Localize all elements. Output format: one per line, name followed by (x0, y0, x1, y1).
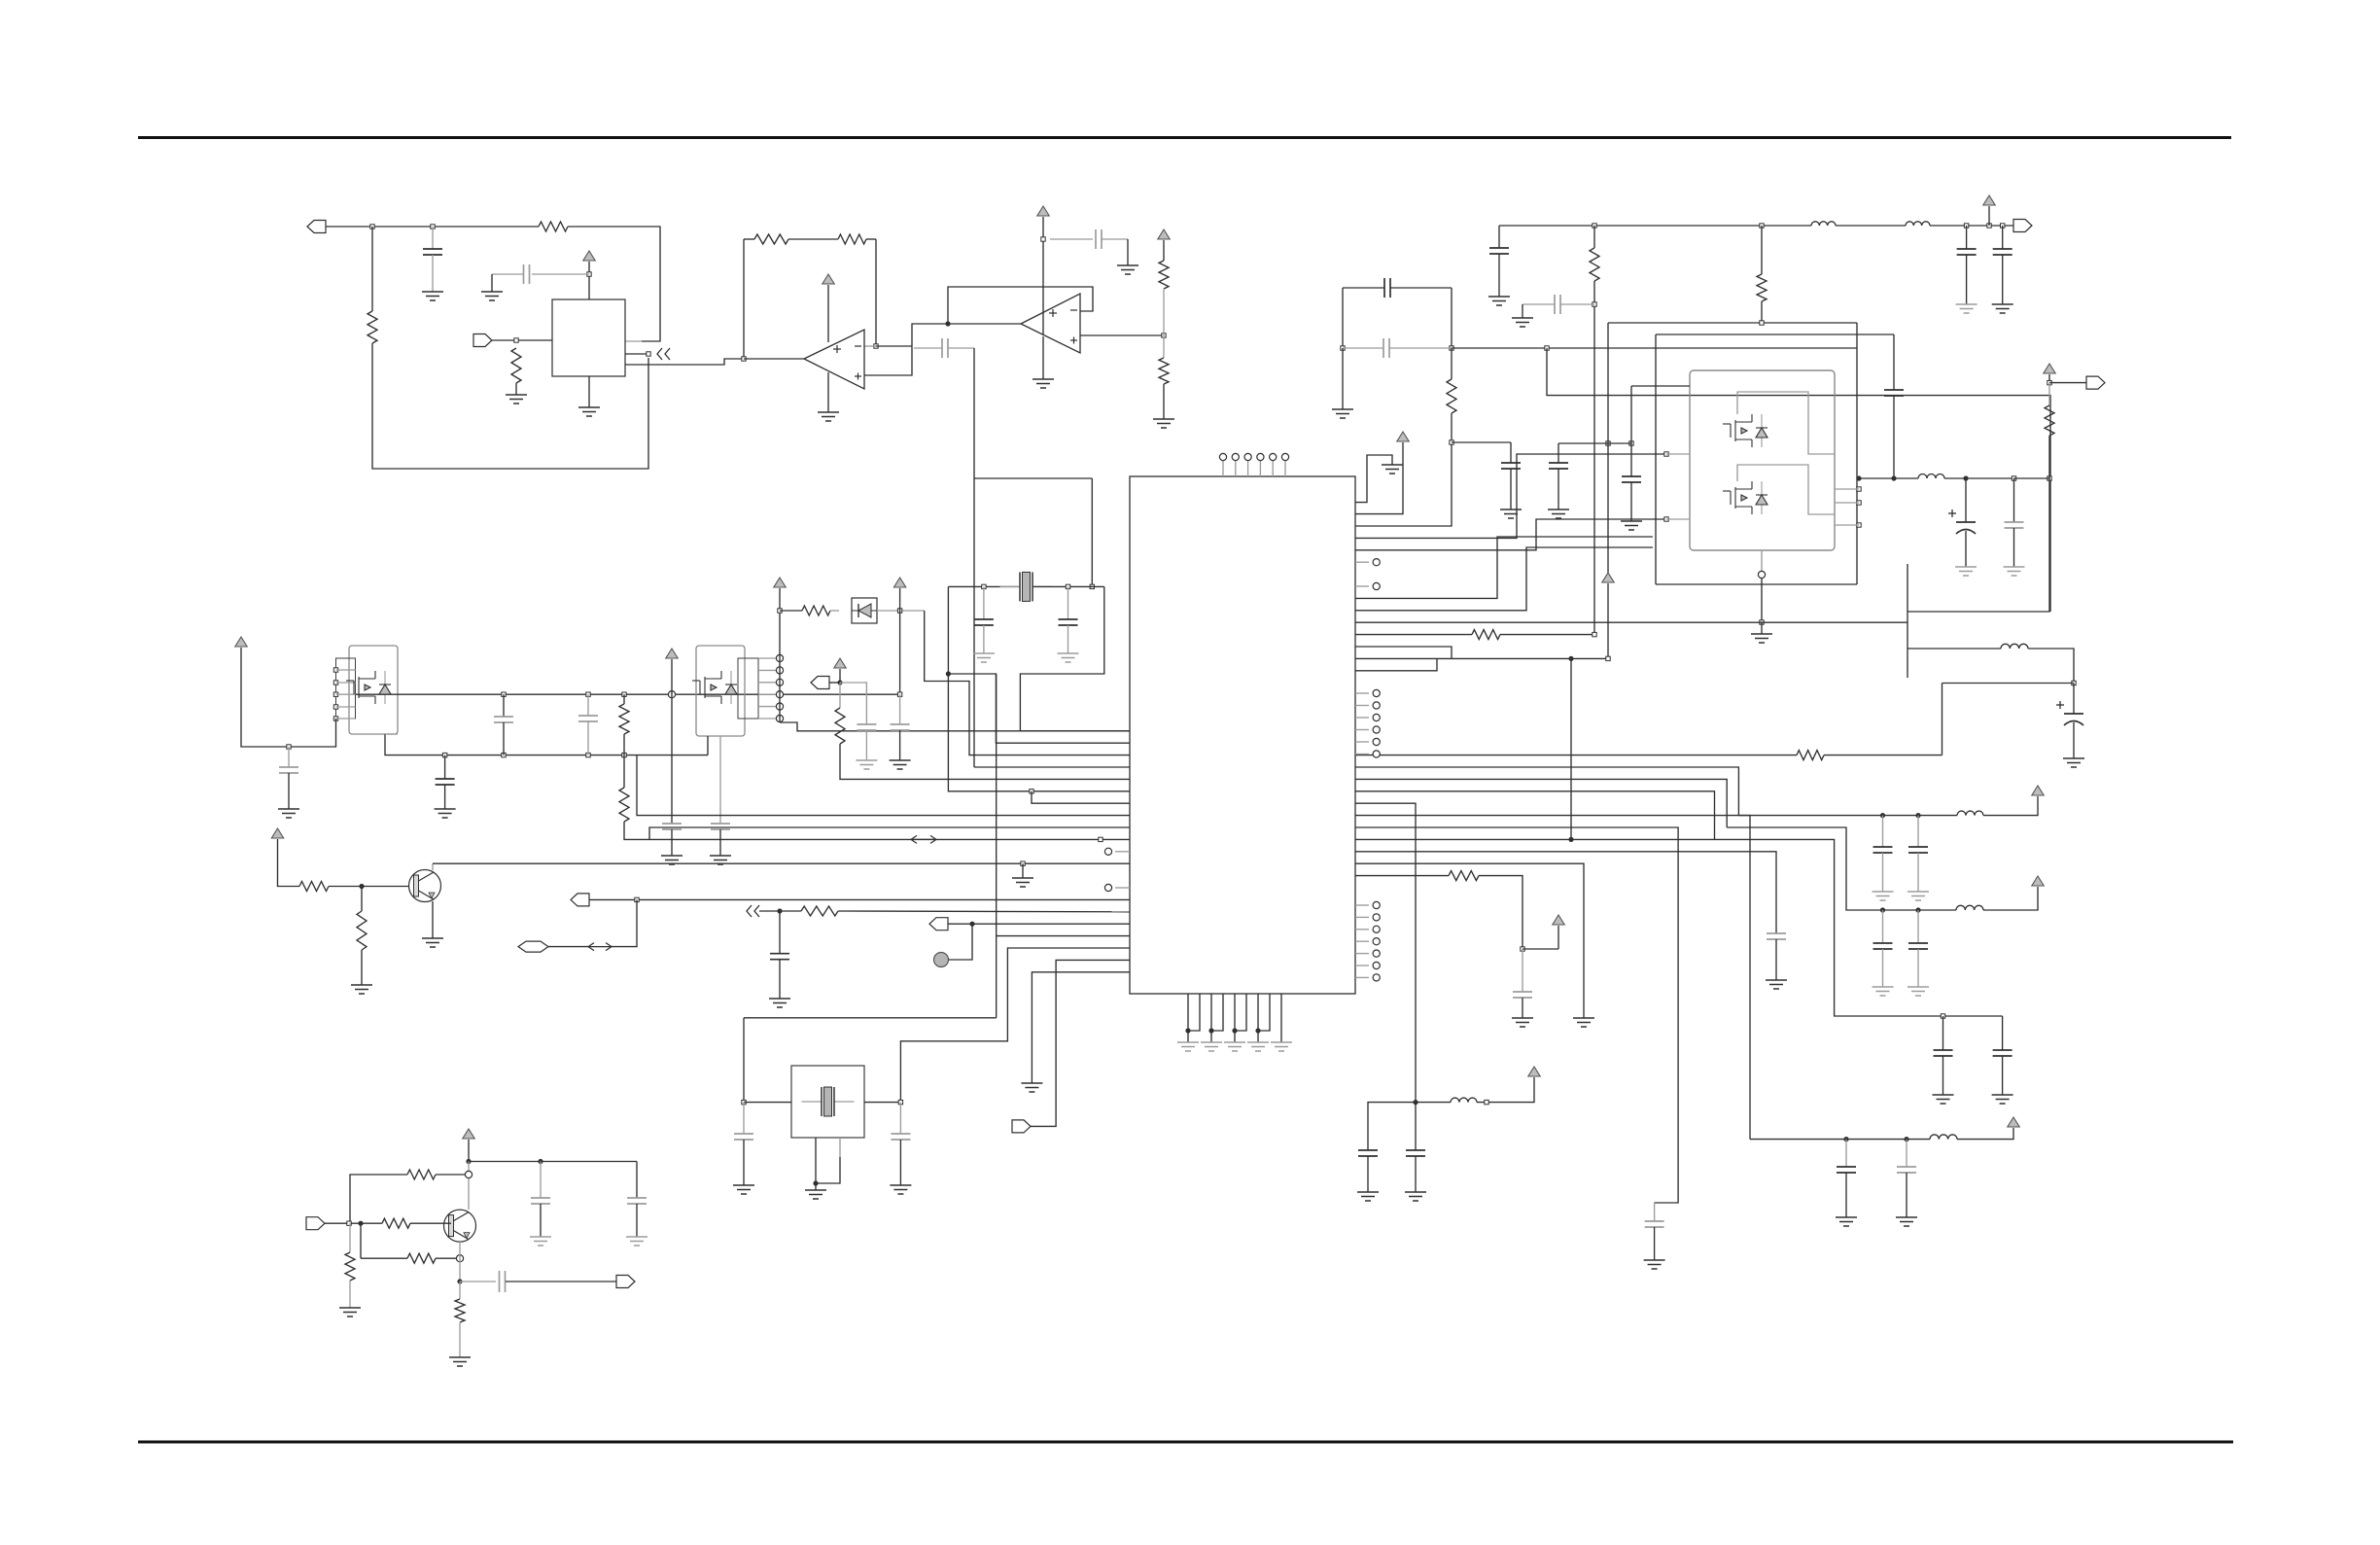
crystal Y1 (1000, 572, 1053, 601)
capacitor C33 (436, 779, 455, 785)
wire staircase (1355, 827, 1678, 1203)
capacitor C19 (1934, 1050, 1953, 1056)
wire to IC pin (840, 744, 1130, 779)
power VCC (1528, 1067, 1540, 1076)
no-connect pin (1373, 901, 1380, 908)
wire (1942, 1016, 1944, 1050)
wire (1930, 225, 2013, 227)
wire (360, 1223, 362, 1258)
wire cap lead (492, 273, 524, 275)
ground (1933, 1095, 1954, 1104)
junction (1880, 907, 1885, 912)
pin junction (333, 717, 337, 720)
wire (1500, 634, 1594, 636)
capacitor C40 (1059, 619, 1078, 625)
wire stub (1355, 705, 1369, 707)
inductor L8 (1451, 1098, 1477, 1103)
test point TP1 (1219, 453, 1226, 460)
ground (1907, 892, 1929, 900)
wire net B (1452, 347, 1857, 349)
junction (1592, 224, 1596, 228)
wire stub (1355, 561, 1369, 563)
resistor R15 (619, 788, 629, 822)
IC U5 (main controller) (1130, 476, 1355, 994)
wire to IC pin (925, 611, 1130, 755)
wire non-inverting (864, 324, 948, 375)
wire (503, 722, 505, 755)
wire (361, 1257, 407, 1259)
wire (838, 910, 1130, 913)
wire collector (468, 1162, 470, 1211)
ground (1896, 1217, 1917, 1226)
resistor R25 (455, 1299, 465, 1322)
capacitor C38 (770, 954, 789, 960)
wire long net (1355, 621, 1907, 623)
wire (1907, 648, 2001, 650)
wire (2013, 478, 2015, 522)
no-connect pin (1373, 751, 1380, 757)
junction (1915, 907, 1920, 912)
wire loop to IC (948, 586, 1130, 743)
connector J9 (811, 677, 829, 689)
wire (1451, 288, 1452, 348)
wire (876, 345, 912, 347)
wire cap lead (948, 347, 974, 349)
capacitor C35 (662, 824, 682, 829)
wire VCC stem (1355, 442, 1403, 514)
no-connect pin (1373, 914, 1380, 921)
wire stub (1355, 904, 1369, 906)
pin junction (776, 679, 783, 685)
wire (2002, 1056, 2004, 1095)
wire (1355, 647, 1452, 658)
wire (1942, 684, 1943, 755)
no-connect pin (1104, 884, 1111, 891)
wire (1917, 910, 1919, 943)
wire pin stub (758, 693, 780, 695)
wire cap lead (1557, 443, 1559, 463)
capacitor C5 (1384, 278, 1390, 298)
no-connect pin (1373, 702, 1380, 709)
wire emitter (459, 1242, 461, 1282)
ground (278, 809, 299, 818)
wire (1917, 949, 1919, 987)
wire collector (432, 863, 434, 870)
wire (1522, 949, 1523, 992)
ground (1512, 1018, 1533, 1027)
test point TP3 (1244, 453, 1251, 460)
wire cap lead (1050, 238, 1093, 240)
resistor R26 (1797, 751, 1824, 760)
ground (1955, 567, 1977, 576)
wire IC ground stub (1280, 994, 1282, 1042)
connector J11 (output) (616, 1276, 635, 1288)
wire (779, 588, 781, 611)
ground (1766, 980, 1787, 989)
test point TP2 (1232, 453, 1239, 460)
wire loop to IC (1020, 586, 1130, 730)
junction (1891, 475, 1896, 480)
capacitor C26 (1837, 1167, 1856, 1173)
wire cap lead (1630, 443, 1632, 476)
ground (435, 809, 456, 818)
capacitor C20 (1767, 933, 1786, 939)
wire (743, 1140, 745, 1185)
wire route (1355, 852, 1776, 933)
no-connect pin (1104, 848, 1111, 855)
power VCC (2032, 876, 2044, 886)
wire (1368, 1103, 1416, 1150)
wire (1342, 348, 1344, 409)
wire VCC stem (1042, 217, 1044, 334)
inductor L5 (1957, 811, 1983, 816)
no-connect pin (1373, 714, 1380, 720)
wire (1882, 853, 1884, 892)
junction (287, 745, 291, 749)
wire (1163, 384, 1165, 419)
wire (2013, 528, 2015, 567)
IC U1 (regulator) (552, 299, 625, 376)
ground (1382, 465, 1403, 474)
junction (1987, 224, 1991, 228)
resistor R14 (619, 704, 629, 734)
bus entry chevron (657, 348, 670, 360)
wire long vertical (996, 674, 997, 1018)
resistor R17 (299, 882, 329, 892)
ground (1117, 265, 1138, 274)
capacitor C9 (1555, 295, 1560, 314)
wire (671, 829, 673, 856)
wire (469, 1161, 637, 1163)
capacitor C3 (942, 338, 948, 358)
wire (1355, 634, 1472, 636)
wire (636, 1204, 638, 1237)
junction (2047, 380, 2051, 384)
junction (946, 671, 951, 676)
wire IC ground stub (1234, 994, 1236, 1036)
wire (468, 1140, 470, 1162)
capacitor C25 (1908, 943, 1928, 949)
wire (1906, 1173, 1907, 1217)
wire pin stub (758, 669, 780, 671)
wire (459, 1282, 461, 1299)
ground (1177, 1042, 1199, 1051)
wire (329, 886, 415, 888)
wire IC ground stub (1188, 994, 1200, 1031)
ground (1405, 1192, 1426, 1201)
wire feedback op-amp2 (948, 287, 1093, 324)
wire (779, 960, 781, 999)
wire stub (1355, 692, 1369, 694)
wire IC ground stub (1210, 994, 1212, 1036)
ground (1247, 1042, 1269, 1051)
wire (1942, 1056, 1944, 1095)
junction (431, 225, 435, 228)
wire (588, 376, 590, 407)
wire to IC pin (624, 822, 1130, 839)
wire drop to J8 (1031, 960, 1130, 1126)
wire (459, 1322, 461, 1357)
junction (668, 691, 675, 698)
wire (949, 924, 973, 960)
wire (540, 1162, 542, 1199)
resistor R8 (1447, 379, 1456, 413)
wire (759, 910, 801, 912)
ground (506, 395, 527, 404)
wire (1355, 658, 1437, 670)
wire test point stem (1284, 461, 1286, 476)
wire (1187, 1036, 1189, 1042)
wire to LC cluster (1355, 803, 1416, 1102)
wire cap lead (532, 273, 589, 275)
junction (502, 753, 506, 756)
junction (1232, 1028, 1237, 1033)
wire cap lead (1102, 238, 1128, 240)
junction (1857, 487, 1861, 491)
wire (816, 1157, 840, 1183)
wire VCC stem (671, 659, 673, 824)
wire (1965, 531, 1967, 567)
wire collector net (433, 862, 1130, 864)
wire bridge rail B (1656, 334, 1894, 335)
wire (1033, 585, 1104, 587)
power VCC (271, 828, 283, 838)
connector J2 (input) (473, 334, 492, 347)
wire (839, 683, 841, 708)
junction (586, 753, 590, 756)
wire (1367, 1156, 1369, 1192)
wire (743, 1103, 745, 1134)
wire stub (1115, 887, 1130, 889)
no-connect pin (1373, 950, 1380, 957)
pin junction (776, 691, 783, 698)
MOSFET package U4 (1690, 370, 1835, 550)
capacitor C36 (711, 824, 730, 829)
ground (1500, 509, 1522, 518)
ground (1224, 1042, 1245, 1051)
crystal Y2 (802, 1087, 855, 1116)
resistor R9 (1590, 248, 1599, 281)
ground (1907, 987, 1929, 996)
no-connect pin (1373, 926, 1380, 932)
wire (1957, 1128, 2013, 1140)
wire (503, 694, 505, 717)
wire net (1355, 838, 1715, 840)
ground (1201, 1042, 1222, 1051)
ground (1956, 304, 1977, 313)
ground (1021, 1083, 1042, 1092)
junction (1450, 346, 1453, 350)
wire (1355, 875, 1449, 877)
junction (1915, 813, 1920, 818)
no-connect pin (1373, 738, 1380, 745)
junction (1857, 523, 1861, 527)
wire elbow to IC pin (1032, 791, 1130, 803)
wire (1882, 816, 1884, 847)
wire long route right (1547, 348, 2050, 612)
connector J3 (output) (2013, 220, 2032, 232)
ground (1153, 419, 1174, 428)
ground (1488, 297, 1510, 305)
wire stub (1355, 754, 1369, 755)
wire pin stub (758, 657, 780, 659)
ground (481, 292, 503, 300)
junction (945, 321, 950, 326)
junction (1606, 441, 1610, 445)
wire bridge right edge (1856, 323, 1858, 584)
no-connect pin (1373, 726, 1380, 733)
wire test point stem (1259, 461, 1261, 476)
wire stub (1835, 524, 1859, 526)
test point TP7 (934, 953, 949, 967)
wire (1415, 1156, 1417, 1192)
wire VCC stem (827, 285, 829, 342)
wire (864, 1102, 900, 1104)
junction (456, 1255, 463, 1262)
junction (813, 1180, 818, 1185)
wire (361, 887, 363, 912)
wire (974, 477, 1092, 479)
ground (1271, 1042, 1292, 1051)
resistor R2 (539, 222, 568, 231)
junction (1066, 584, 1069, 588)
capacitor C7 (1501, 463, 1521, 469)
wire (1067, 586, 1069, 619)
junction (2012, 476, 2015, 480)
wire (568, 227, 660, 341)
test point TP4 (1257, 453, 1264, 460)
junction (897, 692, 901, 696)
wire gnd stem (827, 372, 829, 412)
junction output node (1856, 475, 1861, 480)
wire VCC stem (1988, 206, 1990, 226)
wire net A (326, 226, 539, 228)
wire stub (1355, 940, 1369, 942)
junction (1450, 440, 1453, 444)
wire (1510, 469, 1512, 509)
junction (635, 897, 639, 901)
wire (2028, 649, 2074, 684)
wire (2002, 1016, 2004, 1050)
top border rule (138, 136, 2231, 139)
wire (540, 1204, 542, 1237)
wire to bridge (1355, 519, 1666, 550)
wire (1882, 910, 1884, 943)
ground (2063, 758, 2084, 767)
pin junction (333, 681, 337, 685)
wire (1965, 478, 1967, 522)
wire rail (1883, 909, 1957, 911)
wire stub (1666, 453, 1690, 455)
connector J10 (input) (306, 1217, 325, 1230)
wire (815, 1138, 817, 1183)
resistor R1 (367, 311, 377, 343)
wire IC ground stub (1235, 994, 1246, 1031)
wire (1917, 816, 1919, 847)
wire (385, 733, 398, 735)
capacitor C44 (891, 1134, 910, 1140)
junction (465, 1171, 472, 1177)
wire (349, 1281, 351, 1308)
oscillator module U8 (791, 1066, 864, 1138)
junction (347, 1221, 351, 1225)
wire (548, 946, 588, 948)
power VCC (822, 274, 834, 284)
ground (1621, 521, 1642, 530)
wire (612, 899, 637, 946)
capacitor C24 (1873, 943, 1893, 949)
junction (1485, 1100, 1488, 1104)
wire stub (1355, 953, 1369, 955)
wire (744, 1017, 997, 1019)
wire stub (625, 353, 648, 355)
junction (1099, 837, 1102, 841)
no-connect pin (1373, 974, 1380, 981)
wire non-inverting (1080, 334, 1164, 336)
wire emitter (432, 901, 434, 938)
wire (779, 911, 781, 954)
wire (444, 755, 446, 779)
wire (1091, 478, 1093, 586)
wire feedback (743, 239, 745, 359)
wire to bridge (1355, 454, 1666, 538)
wire (1857, 477, 1918, 479)
wire (1845, 1173, 1847, 1217)
capacitor C17 (polarized) (2056, 701, 2083, 725)
capacitor C46 (627, 1198, 647, 1204)
wire (815, 1183, 817, 1190)
wire (1966, 226, 1968, 249)
capacitor C45 (531, 1198, 550, 1204)
wire (349, 1223, 351, 1252)
wire cap lead (1343, 347, 1383, 349)
wire (1593, 226, 1595, 248)
junction (1857, 501, 1861, 505)
junction (622, 753, 626, 756)
capacitor C21 (1513, 992, 1532, 998)
junction (1606, 656, 1610, 660)
junction (538, 1159, 542, 1164)
junction (466, 1159, 471, 1164)
wire VCC stem (1557, 926, 1559, 949)
pin junction (333, 692, 337, 696)
pin header U6 pins (336, 658, 356, 719)
ground (805, 1190, 826, 1199)
ground (339, 1308, 361, 1317)
wire stub (1835, 488, 1859, 490)
wire (623, 755, 625, 788)
wire cap lead (1389, 347, 1452, 349)
wire (361, 950, 363, 985)
junction (1963, 475, 1968, 480)
junction (1568, 656, 1573, 661)
resistor R21 (407, 1170, 436, 1179)
no-connect pin (1373, 938, 1380, 945)
wire staircase to rail E (1355, 816, 1750, 1140)
junction (777, 908, 782, 913)
junction (647, 352, 650, 356)
wire (2002, 226, 2004, 249)
wire (506, 1281, 616, 1282)
pin junction (776, 654, 783, 661)
wire (1416, 1102, 1451, 1104)
junction (442, 753, 446, 756)
wire (1761, 301, 1763, 323)
wire (1451, 348, 1452, 379)
junction (2001, 224, 2005, 228)
resistor R4 (754, 234, 788, 244)
wire (491, 274, 493, 292)
